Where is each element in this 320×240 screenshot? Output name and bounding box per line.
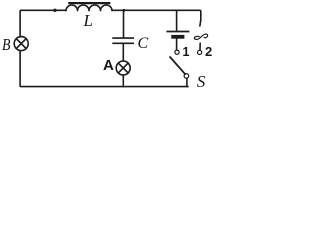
wire: capacitor branch upper lead bbox=[123, 11, 125, 37]
wire: bottom horizontal (lamp A branch to switch riser) bbox=[123, 86, 188, 88]
label 1 (contact) bbox=[183, 45, 190, 59]
label B (lamp) bbox=[2, 35, 10, 55]
wire: battery lower lead to contact 1 bbox=[176, 39, 178, 50]
switch S lever bbox=[170, 57, 185, 74]
inductor L coil bbox=[66, 5, 112, 11]
wire: left vertical lower segment (lamp B to bottom-left corner) bbox=[20, 51, 123, 87]
label A (lamp) bbox=[103, 57, 114, 74]
lamp B bbox=[14, 37, 28, 51]
switch contact 1 bbox=[175, 50, 179, 54]
lamp A bbox=[116, 61, 130, 75]
wire: right branch squiggle (flexible wire) bbox=[194, 34, 207, 39]
inductor L core bar bbox=[68, 2, 110, 4]
wire: pivot riser to bottom wire bbox=[186, 78, 188, 86]
label S (switch) bbox=[197, 72, 206, 92]
capacitor C lower plate bbox=[112, 42, 134, 44]
battery negative plate (short thick) bbox=[171, 35, 184, 39]
wire: battery branch upper lead bbox=[176, 11, 178, 31]
switch S pivot bbox=[184, 74, 189, 79]
wire: stub below squiggle to contact 2 bbox=[199, 43, 201, 50]
capacitor C upper plate bbox=[112, 37, 134, 39]
switch contact 2 bbox=[198, 50, 202, 54]
battery positive plate (long) bbox=[166, 31, 189, 33]
node: junction dot at capacitor branch bbox=[123, 9, 126, 12]
wire: capacitor to lamp A lead bbox=[122, 44, 124, 61]
wire: top horizontal (inductor to top-right corner) bbox=[112, 10, 201, 26]
label 2 (contact) bbox=[205, 44, 212, 59]
label L (inductor) bbox=[84, 11, 93, 31]
label C (capacitor) bbox=[138, 35, 149, 53]
wire: left vertical upper segment (top-left corner to lamp B) bbox=[20, 10, 66, 37]
wire: lamp A lower lead bbox=[122, 75, 124, 87]
node: junction dot on top wire bbox=[53, 9, 56, 12]
